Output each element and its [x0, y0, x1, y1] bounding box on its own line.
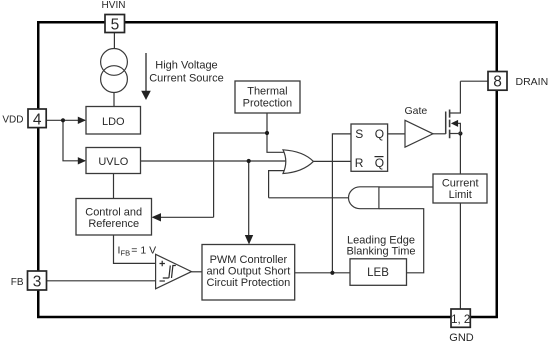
svg-text:1, 2: 1, 2 [451, 314, 470, 326]
svg-text:Limit: Limit [449, 189, 472, 201]
svg-text:Q: Q [375, 127, 384, 141]
svg-text:UVLO: UVLO [98, 156, 128, 168]
svg-text:Current Source: Current Source [149, 73, 224, 85]
svg-text:LEB: LEB [367, 267, 389, 279]
svg-text:Blanking Time: Blanking Time [346, 246, 415, 258]
svg-text:VDD: VDD [2, 114, 23, 125]
svg-text:Thermal: Thermal [247, 86, 287, 98]
svg-text:R: R [355, 156, 364, 170]
svg-text:and Output Short: and Output Short [207, 266, 291, 278]
svg-text:FB: FB [11, 277, 24, 288]
svg-text:FB: FB [121, 249, 131, 258]
svg-text:Protection: Protection [243, 97, 293, 109]
svg-text:DRAIN: DRAIN [516, 76, 549, 88]
svg-text:PWM Controller: PWM Controller [210, 254, 288, 266]
svg-text:Q: Q [375, 156, 384, 170]
svg-text:Circuit Protection: Circuit Protection [207, 277, 291, 289]
svg-text:S: S [355, 127, 363, 141]
svg-text:High Voltage: High Voltage [155, 60, 217, 72]
svg-text:LDO: LDO [102, 116, 125, 128]
svg-text:Reference: Reference [88, 218, 139, 230]
svg-text:8: 8 [493, 74, 502, 91]
svg-text:Gate: Gate [405, 105, 428, 117]
svg-text:3: 3 [33, 273, 42, 290]
svg-text:5: 5 [111, 16, 120, 33]
svg-text:4: 4 [33, 111, 42, 128]
svg-text:Current: Current [442, 177, 479, 189]
svg-text:Control and: Control and [85, 207, 142, 219]
svg-text:GND: GND [449, 332, 474, 344]
svg-text:= 1 V: = 1 V [131, 244, 156, 256]
svg-text:Leading Edge: Leading Edge [347, 234, 415, 246]
svg-text:HVIN: HVIN [102, 0, 126, 11]
